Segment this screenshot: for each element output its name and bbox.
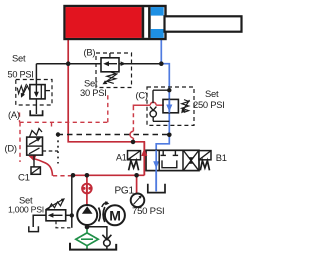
- bypass check valve: [102, 235, 111, 240]
- valve D bottom box path: [29, 148, 40, 154]
- solenoid B1 box: [199, 151, 211, 160]
- relief valve right line: [66, 214, 72, 216]
- coupling between pump and motor: [99, 208, 101, 222]
- valve A drain line: [35, 99, 37, 114]
- electric motor: [105, 205, 125, 225]
- junction dot drain line / blue: [167, 133, 172, 138]
- valve B vent stub: [109, 53, 111, 58]
- junction dot drain line / dotted pilot: [56, 132, 60, 136]
- svg-text:(A): (A): [8, 109, 20, 120]
- wire: red branch to pump via test point: [86, 175, 88, 184]
- svg-text:1,000 PSI: 1,000 PSI: [8, 205, 44, 215]
- wire: red pump pressure line horizontal: [73, 174, 144, 176]
- pilot line: valve D dashes to dotted line: [43, 150, 59, 152]
- valve B body (Set 30 PSI relief): [101, 58, 119, 72]
- pilot line: red dashed pilot to valve C from A-line: [130, 102, 164, 141]
- svg-text:(D): (D): [5, 143, 17, 154]
- spring B1 (M): [200, 161, 209, 171]
- pump circle: [77, 205, 97, 225]
- valve D body (2 position): [27, 137, 43, 155]
- cylinder barrel: [65, 6, 166, 39]
- svg-text:(B): (B): [84, 47, 96, 58]
- bypass line with check valve: [89, 227, 107, 240]
- wire: valve A riser: [35, 64, 37, 85]
- junction dot valve C top: [167, 88, 171, 92]
- junction dot relief branch: [71, 173, 76, 178]
- valve C check branch bottom rail: [153, 120, 169, 122]
- pump suction stub: [86, 225, 88, 227]
- svg-text:PG1: PG1: [115, 185, 135, 196]
- valve D spring (top): [30, 129, 43, 138]
- flow arrow right of valve B: [121, 61, 126, 66]
- red A-port flow line redrawn over valve edge: [143, 142, 145, 176]
- relief valve adjust arrow: [46, 200, 63, 210]
- svg-text:Set: Set: [205, 88, 219, 99]
- svg-text:M: M: [109, 208, 120, 224]
- valve A adjust arrow: [22, 84, 27, 96]
- relief valve tank symbol: [29, 226, 39, 231]
- valve C adjust arrow: [183, 100, 190, 111]
- cylinder piston: [142, 7, 145, 38]
- cylinder rod-side fluid bottom (blue): [151, 29, 164, 38]
- pilot line: red dashed left side of valve D envelope: [19, 122, 21, 162]
- valve A spring: [17, 86, 30, 94]
- pilot line: black dotted vertical at valve D: [57, 135, 59, 164]
- pilot line: red dashed vent line valve A to valve B: [20, 121, 108, 123]
- center box blocked port T right: [174, 150, 176, 155]
- black vertical pressure branch to relief valve: [71, 175, 73, 228]
- solenoid A1 box: [128, 151, 141, 160]
- valve C body (Set 250 PSI): [163, 99, 178, 112]
- valve C dashed enclosure: [147, 87, 194, 125]
- svg-text:50 PSI: 50 PSI: [8, 69, 34, 79]
- valve D outlet stub: [33, 155, 35, 167]
- svg-text:B1: B1: [216, 152, 227, 163]
- junction dot cap line / main line: [66, 61, 71, 66]
- redraw blue through directional valve: [155, 150, 157, 170]
- valve A body (Set 50 PSI relief): [30, 85, 45, 99]
- redraw blue through valve C body: [168, 99, 170, 112]
- cylinder rod-side fluid top (blue): [151, 7, 164, 16]
- relief valve 1000 PSI body: [46, 210, 66, 221]
- svg-text:250 PSI: 250 PSI: [193, 99, 225, 110]
- valve C spring: [182, 100, 189, 113]
- center box U connection: [162, 160, 177, 167]
- flow arrow up on A-line: [141, 149, 147, 157]
- valve B spring: [107, 72, 116, 84]
- svg-text:(C): (C): [136, 90, 148, 101]
- right box crossed arrows: [184, 151, 199, 170]
- junction dot relief valve connection: [70, 213, 74, 217]
- valve A pilot stub: [45, 90, 50, 92]
- junction dot pump branch: [85, 173, 90, 178]
- pilot line: black dashed drain from valve D pilot to blue line: [58, 134, 168, 136]
- flow arrow down in valve C: [166, 105, 172, 112]
- pilot line: red dashed riser to valve B vent: [107, 95, 109, 123]
- pilot line: red dashed to valve D actuator with curved arrow: [53, 175, 72, 177]
- gauge PG1: [131, 194, 145, 208]
- valve B adjust arrow: [106, 74, 118, 82]
- valve C check branch left line: [152, 90, 154, 103]
- directional valve box borders: [158, 150, 160, 170]
- rotation arrow: [102, 202, 108, 207]
- wire: red line to gauge PG1: [136, 175, 138, 193]
- center box blocked port T left: [162, 150, 164, 155]
- svg-text:Set: Set: [12, 53, 26, 64]
- svg-text:C1: C1: [18, 173, 30, 184]
- flow arrow down in directional valve: [153, 161, 159, 169]
- junction dot pilot tap on A-line: [131, 140, 136, 145]
- junction dot filter top: [85, 225, 90, 230]
- pilot line: red dashed stub at x=51: [51, 122, 53, 127]
- pilot line: red dashed stub below valve A: [19, 113, 21, 123]
- junction dot gauge tee: [134, 173, 139, 178]
- valve A tank symbol: [30, 110, 42, 115]
- valve A dashed enclosure: [16, 80, 52, 106]
- suction line pump to filter: [86, 227, 88, 233]
- valve C check branch top rail: [153, 89, 169, 91]
- svg-text:A1: A1: [116, 152, 127, 162]
- wire: red pressure trunk from cylinder cap port down and across to valve: [68, 39, 144, 176]
- reservoir: [70, 243, 116, 250]
- wire: blue rod-side line from cylinder to valve C: [161, 36, 169, 90]
- cylinder cap-side fluid (red): [66, 7, 142, 38]
- test point (red): [82, 184, 92, 194]
- wire: main black line from valve A to blue junction: [36, 63, 161, 65]
- valve C check valve arrow and ball: [150, 107, 156, 111]
- cylinder rod: [165, 16, 242, 31]
- filter (green diamond): [76, 233, 98, 246]
- relief valve left line to tank: [33, 215, 46, 227]
- directional valve body: [146, 150, 199, 170]
- relief valve spring diagonal: [49, 200, 64, 209]
- blue into tank redrawn: [155, 171, 157, 192]
- valve B dashed enclosure: [96, 53, 132, 88]
- svg-text:750 PSI: 750 PSI: [132, 206, 164, 217]
- tank under directional valve: [148, 184, 165, 193]
- valve D plugged port box: [31, 167, 40, 174]
- junction dot blue port / main line: [159, 61, 164, 66]
- relief valve pilot dashes: [56, 221, 72, 228]
- wire: blue line through valve C down to directional valve: [156, 90, 169, 191]
- svg-text:30 PSI: 30 PSI: [80, 87, 107, 98]
- valve D top box arrow path: [29, 139, 39, 145]
- spring A1 (M): [129, 161, 139, 171]
- filter to reservoir stub: [86, 246, 88, 250]
